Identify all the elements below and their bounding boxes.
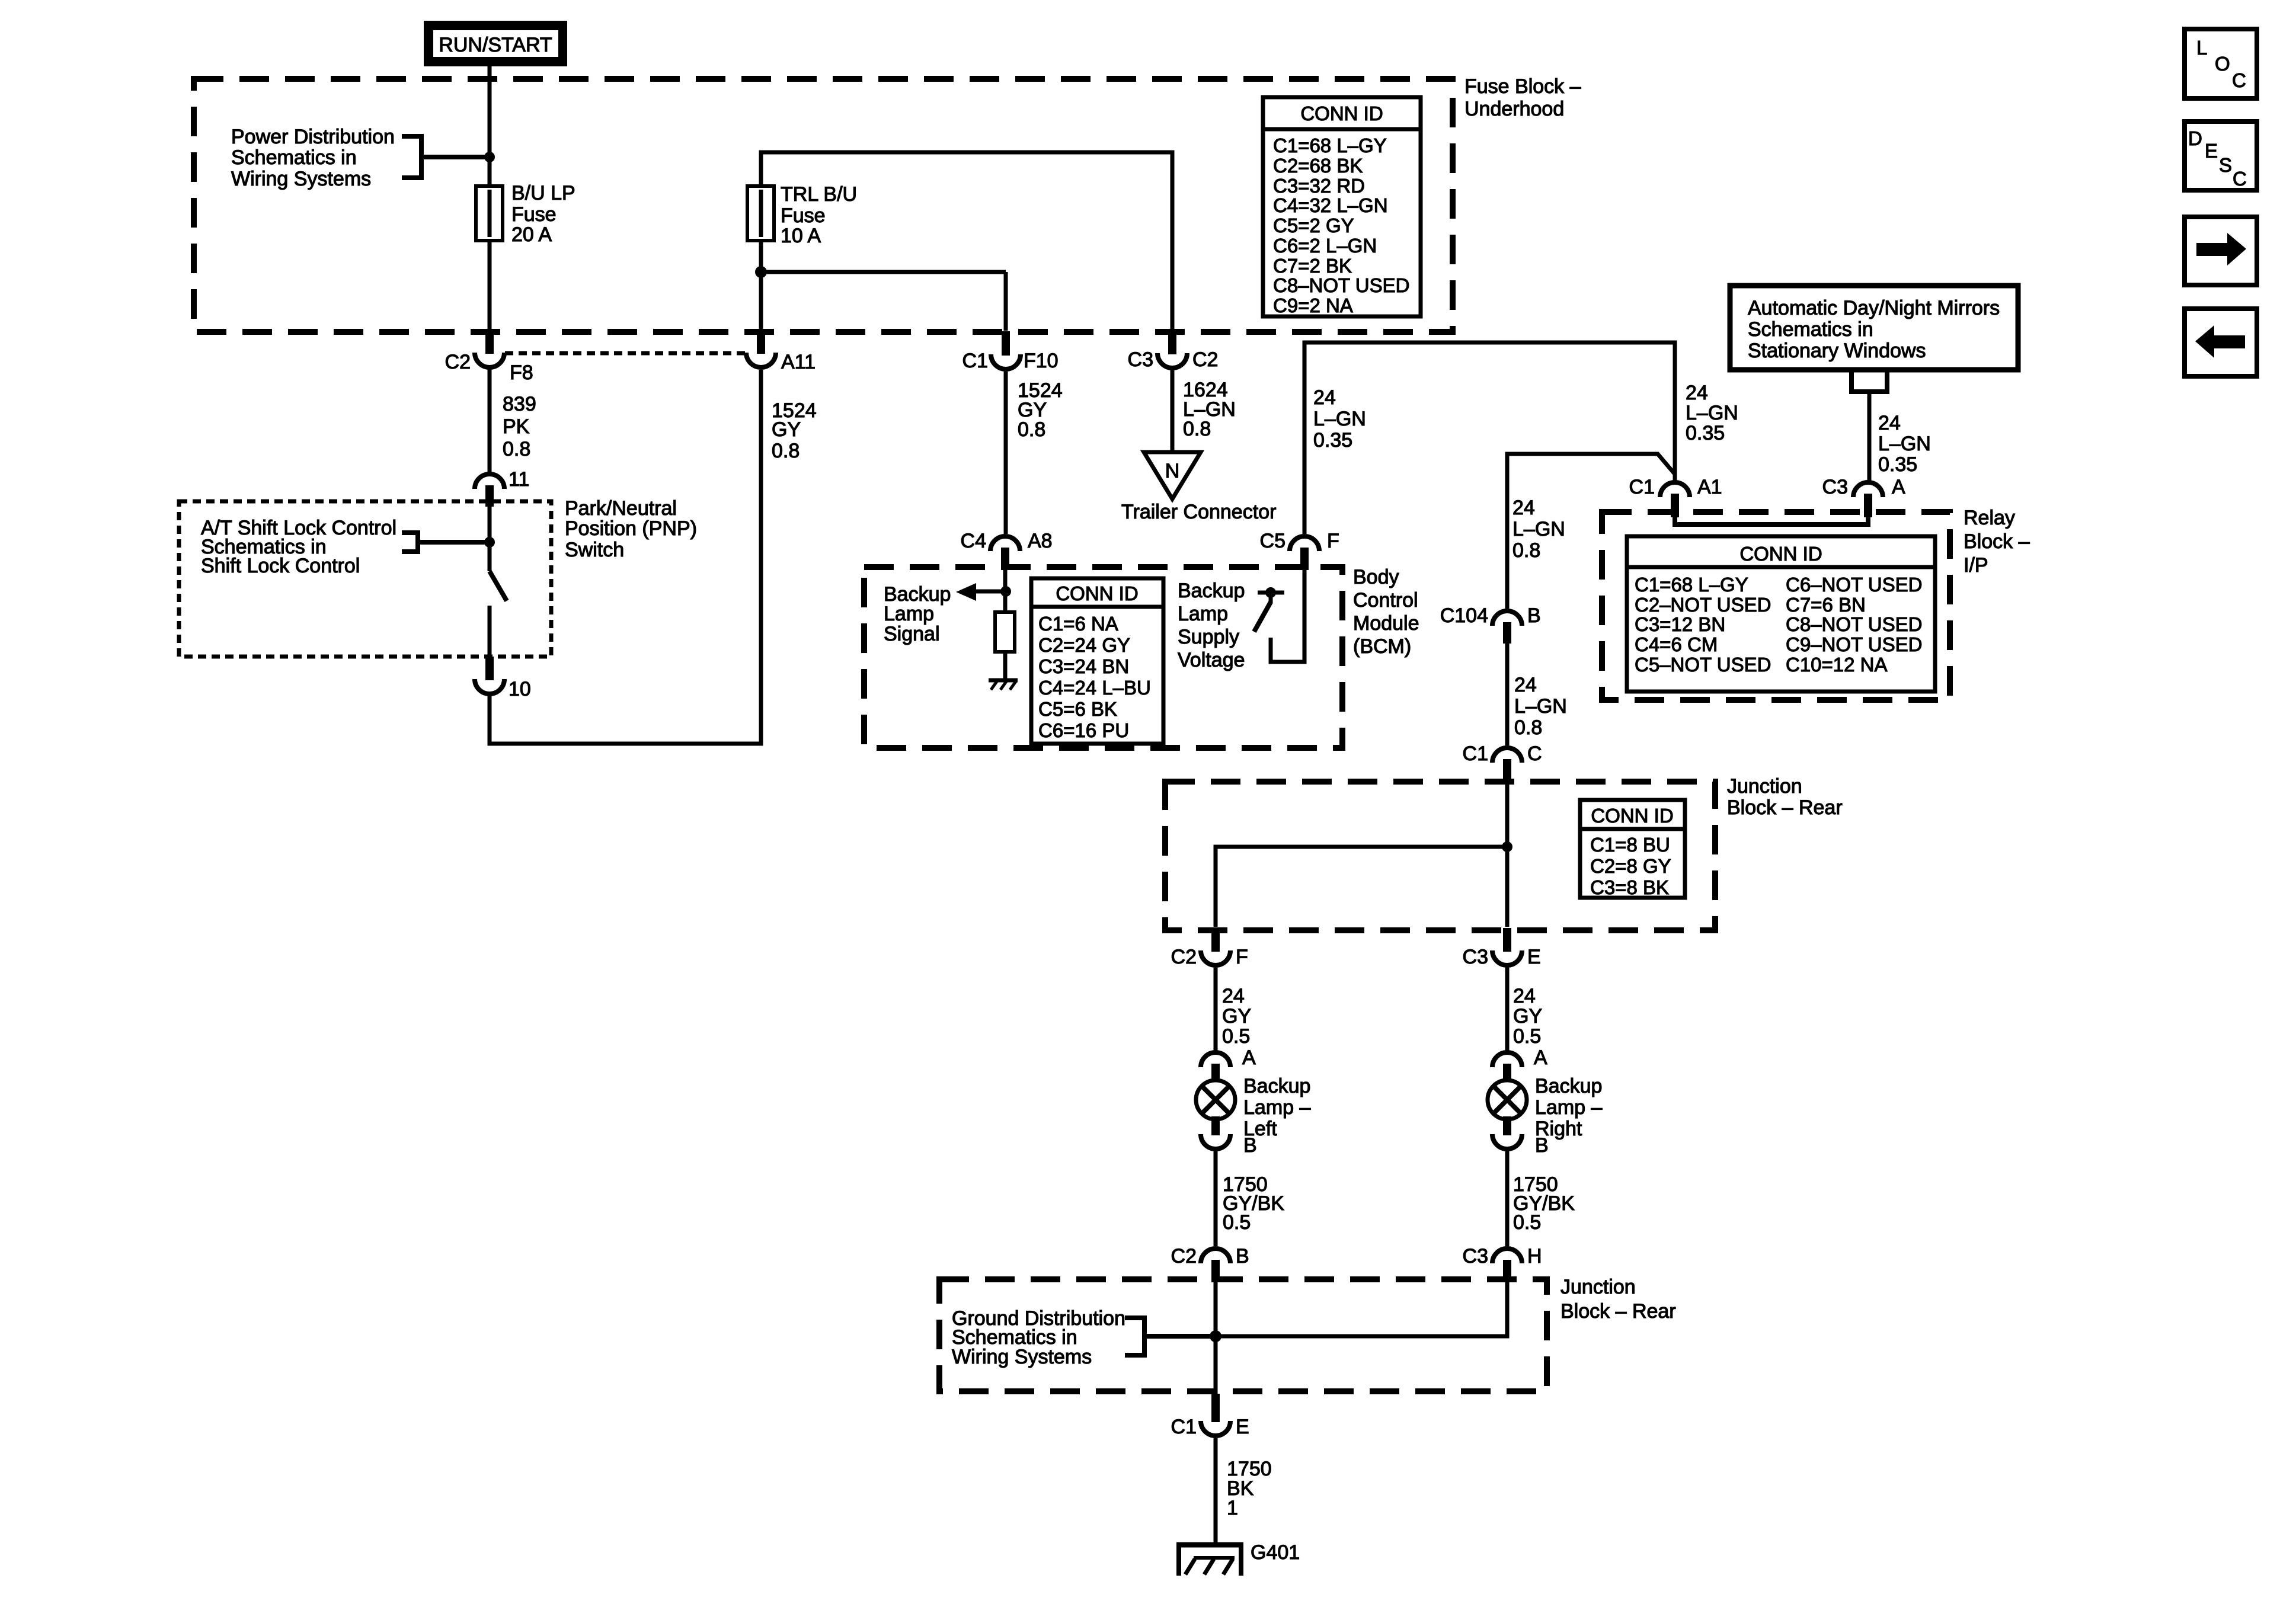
- svg-text:0.5: 0.5: [1513, 1025, 1541, 1048]
- svg-text:B: B: [1535, 1134, 1549, 1157]
- junction: A/T shift lock tap: [484, 537, 495, 548]
- svg-text:Lamp –: Lamp –: [1535, 1096, 1602, 1119]
- wire: pin 11 into switch: [488, 505, 492, 571]
- svg-text:C1: C1: [1463, 742, 1488, 765]
- svg-text:24: 24: [1313, 386, 1336, 409]
- svg-text:Supply: Supply: [1178, 626, 1239, 648]
- wire: relay block bus A1 to A: [1675, 517, 1868, 524]
- svg-text:0.5: 0.5: [1223, 1211, 1251, 1234]
- svg-text:Relay: Relay: [1964, 507, 2015, 529]
- svg-text:O: O: [2215, 53, 2230, 75]
- svg-text:L: L: [2196, 37, 2207, 59]
- svg-text:Backup: Backup: [1178, 580, 1245, 602]
- svg-text:Shift Lock Control: Shift Lock Control: [201, 555, 360, 577]
- svg-text:C10=12 NA: C10=12 NA: [1786, 654, 1888, 676]
- svg-text:L–GN: L–GN: [1878, 433, 1931, 455]
- svg-text:C104: C104: [1440, 604, 1488, 627]
- svg-text:Position (PNP): Position (PNP): [565, 517, 697, 540]
- svg-text:24: 24: [1222, 985, 1245, 1007]
- svg-text:24: 24: [1686, 382, 1708, 404]
- svg-text:CONN ID: CONN ID: [1300, 103, 1383, 124]
- svg-text:C1=68 L–GY: C1=68 L–GY: [1273, 135, 1387, 156]
- svg-text:C8–NOT USED: C8–NOT USED: [1786, 613, 1922, 635]
- svg-text:Body: Body: [1353, 566, 1399, 588]
- svg-text:C6=16 PU: C6=16 PU: [1038, 719, 1129, 741]
- junction: backup lamp signal node: [1000, 586, 1011, 597]
- svg-text:I/P: I/P: [1964, 554, 1988, 577]
- svg-text:RUN/START: RUN/START: [439, 34, 552, 56]
- bracket: power distribution reference: [402, 136, 421, 178]
- svg-text:C3=24 BN: C3=24 BN: [1038, 655, 1129, 677]
- svg-text:CONN ID: CONN ID: [1056, 582, 1138, 604]
- connector pin A (backup lamp left): [1201, 1046, 1256, 1081]
- svg-text:A8: A8: [1028, 530, 1053, 552]
- svg-text:C4=32 L–GN: C4=32 L–GN: [1273, 194, 1388, 216]
- wire: right lamp B to C3/H: [1505, 1151, 1510, 1246]
- svg-text:A1: A1: [1697, 476, 1722, 498]
- svg-text:C2: C2: [1171, 1245, 1197, 1267]
- svg-text:C2–NOT USED: C2–NOT USED: [1635, 594, 1771, 616]
- trailer connector N triangle: [1144, 452, 1201, 499]
- wire: mirrors to C3/A: [1868, 392, 1872, 481]
- icon: DESC box: [2185, 121, 2257, 190]
- wire: bracket stem to splice: [1144, 1334, 1210, 1339]
- wire: C2 to trailer connector: [1171, 370, 1175, 452]
- svg-text:Block – Rear: Block – Rear: [1560, 1300, 1676, 1323]
- svg-text:F8: F8: [510, 361, 533, 384]
- svg-text:C3=8 BK: C3=8 BK: [1590, 876, 1669, 898]
- svg-text:G401: G401: [1251, 1541, 1300, 1564]
- wire: B down through junction block to C1/E: [1214, 1280, 1218, 1398]
- wire: H down and left to ground splice: [1216, 1280, 1507, 1336]
- connector C3/E (junction block to right lamp): [1463, 928, 1541, 968]
- svg-text:0.5: 0.5: [1222, 1025, 1250, 1048]
- node: RUN/START ignition feed box: [428, 25, 564, 63]
- svg-text:N: N: [1165, 460, 1180, 482]
- connector pin B (backup lamp right): [1492, 1116, 1549, 1157]
- svg-text:Switch: Switch: [565, 539, 624, 561]
- svg-text:A11: A11: [781, 351, 816, 373]
- svg-text:Schematics in: Schematics in: [231, 146, 357, 169]
- svg-text:Block –: Block –: [1964, 530, 2030, 553]
- node: Automatic Day/Night Mirrors reference box: [1730, 286, 2018, 370]
- svg-text:F: F: [1236, 946, 1248, 968]
- junction: ground splice: [1210, 1330, 1221, 1342]
- switch: PNP blade (open): [490, 571, 507, 601]
- icon: forward arrow box: [2185, 217, 2257, 285]
- svg-text:Lamp: Lamp: [1178, 603, 1228, 625]
- wire: TRL fuse output to F10 drop: [761, 270, 1006, 274]
- wire: to left lamp pin A: [1214, 968, 1218, 1051]
- svg-text:GY: GY: [1513, 1005, 1542, 1028]
- wire: switch lower contact to pin 10: [488, 606, 492, 657]
- Junction Block Rear lower dashed box: [939, 1279, 1547, 1391]
- svg-text:D: D: [2188, 127, 2202, 149]
- svg-text:Backup: Backup: [1535, 1075, 1602, 1097]
- Park/Neutral Position switch dashed box: [179, 501, 551, 657]
- connector pin 11 (PNP switch): [475, 468, 529, 507]
- svg-text:1: 1: [1227, 1497, 1238, 1519]
- svg-text:L–GN: L–GN: [1686, 402, 1738, 424]
- svg-text:C1: C1: [1629, 476, 1655, 498]
- Body Control Module dashed box: [864, 567, 1342, 748]
- wire: to right lamp pin A: [1505, 968, 1510, 1051]
- connector C3/H (ground junction block): [1463, 1245, 1542, 1282]
- connector C2/F8 (fuse block output): [445, 329, 533, 384]
- svg-text:C2: C2: [1192, 348, 1218, 371]
- connector C1/C (junction block rear): [1463, 742, 1542, 782]
- ground G401: [1176, 1543, 1243, 1576]
- svg-text:0.35: 0.35: [1878, 453, 1917, 476]
- svg-text:(BCM): (BCM): [1353, 635, 1411, 658]
- svg-text:0.8: 0.8: [772, 440, 800, 462]
- svg-text:Backup: Backup: [1243, 1075, 1310, 1097]
- svg-text:0.8: 0.8: [1514, 716, 1542, 739]
- connector row dotted line C2 to A11: [505, 351, 746, 356]
- svg-text:Signal: Signal: [884, 623, 940, 645]
- svg-text:H: H: [1527, 1245, 1542, 1267]
- svg-text:0.5: 0.5: [1513, 1211, 1541, 1234]
- wire: F8 to pin 11: [488, 369, 492, 472]
- svg-text:C6=2 L–GN: C6=2 L–GN: [1273, 235, 1377, 257]
- connector C1/A1 (relay block): [1629, 476, 1722, 517]
- svg-text:Underhood: Underhood: [1464, 98, 1564, 120]
- svg-text:Module: Module: [1353, 612, 1419, 635]
- svg-text:0.8: 0.8: [1183, 418, 1211, 440]
- svg-text:0.8: 0.8: [1018, 418, 1045, 441]
- svg-text:0.8: 0.8: [1512, 539, 1540, 562]
- wire: TRL fuse loop to trailer drop: [761, 152, 1172, 331]
- connector C5/F (BCM supply): [1260, 530, 1339, 570]
- svg-text:Wiring Systems: Wiring Systems: [952, 1346, 1092, 1368]
- svg-text:Voltage: Voltage: [1178, 649, 1245, 671]
- resistor: BCM internal pull: [995, 612, 1015, 652]
- svg-text:C: C: [1527, 742, 1542, 765]
- svg-text:A: A: [1892, 476, 1905, 498]
- svg-text:C2=24 GY: C2=24 GY: [1038, 634, 1130, 656]
- svg-text:Lamp –: Lamp –: [1243, 1096, 1310, 1119]
- svg-text:Wiring Systems: Wiring Systems: [231, 168, 371, 190]
- svg-text:Lamp: Lamp: [884, 603, 934, 625]
- icon: LOC box: [2185, 29, 2257, 98]
- svg-text:C: C: [2232, 69, 2246, 91]
- svg-text:C3: C3: [1128, 348, 1153, 371]
- svg-text:C4=6 CM: C4=6 CM: [1635, 633, 1718, 655]
- svg-text:C2: C2: [445, 351, 471, 373]
- svg-text:C: C: [2233, 168, 2247, 190]
- fuse B/U LP 20 A: [476, 186, 503, 241]
- connector pin 10 (PNP switch): [475, 657, 531, 700]
- junction: BCM switch common with stub: [1258, 591, 1284, 595]
- connector C104/B (pass through): [1440, 604, 1541, 644]
- svg-text:839: 839: [503, 393, 536, 415]
- svg-text:S: S: [2219, 154, 2232, 176]
- arrow: backup lamp signal direction: [976, 590, 1006, 594]
- wire: left lamp B to C2/B: [1214, 1151, 1218, 1246]
- wire: C104 to C1/C: [1505, 642, 1510, 745]
- svg-text:C5–NOT USED: C5–NOT USED: [1635, 654, 1771, 676]
- svg-text:20 A: 20 A: [511, 223, 552, 246]
- svg-text:C7=2 BK: C7=2 BK: [1273, 255, 1352, 277]
- svg-text:C2=68 BK: C2=68 BK: [1273, 155, 1363, 177]
- wire: RUN/START down to connector C2/F8: [488, 66, 492, 331]
- svg-text:L–GN: L–GN: [1313, 408, 1366, 430]
- wire: A8 into BCM: [1003, 570, 1008, 612]
- svg-text:A: A: [1534, 1046, 1547, 1069]
- wire: E down to G401: [1214, 1438, 1218, 1543]
- connector C4/A8 (BCM backup lamp signal): [961, 530, 1053, 570]
- svg-text:TRL B/U: TRL B/U: [781, 183, 857, 206]
- svg-text:10 A: 10 A: [781, 225, 821, 247]
- svg-text:C7=6 BN: C7=6 BN: [1786, 594, 1866, 616]
- svg-text:24: 24: [1514, 674, 1537, 696]
- svg-text:L–GN: L–GN: [1512, 518, 1565, 540]
- table: BCM CONN ID: [1031, 578, 1163, 744]
- svg-text:C1=8 BU: C1=8 BU: [1590, 834, 1670, 856]
- svg-text:F: F: [1327, 530, 1339, 552]
- svg-text:C3: C3: [1463, 1245, 1488, 1267]
- junction: junction block splice: [1502, 841, 1512, 852]
- svg-text:Control: Control: [1353, 589, 1418, 612]
- Junction Block Rear upper dashed box: [1165, 782, 1715, 930]
- wire: resistor to internal ground: [1003, 652, 1008, 680]
- svg-text:A: A: [1242, 1046, 1256, 1069]
- svg-text:C8–NOT USED: C8–NOT USED: [1273, 274, 1409, 296]
- connector C2/F (junction block to left lamp): [1171, 928, 1248, 968]
- svg-text:C1=68 L–GY: C1=68 L–GY: [1635, 574, 1748, 596]
- svg-text:Park/Neutral: Park/Neutral: [565, 497, 677, 520]
- svg-text:11: 11: [509, 468, 529, 491]
- svg-text:C4=24 L–BU: C4=24 L–BU: [1038, 677, 1151, 699]
- svg-text:E: E: [1527, 946, 1541, 968]
- bracket: mirrors box staple: [1851, 370, 1887, 392]
- svg-text:F10: F10: [1024, 350, 1059, 372]
- wire: pin 10 down, right and up to A11: [490, 370, 761, 744]
- wire: bracket stem: [418, 540, 485, 545]
- ground: BCM internal chassis ground: [989, 680, 1018, 690]
- svg-text:Fuse: Fuse: [511, 203, 557, 226]
- svg-text:0.8: 0.8: [503, 438, 530, 460]
- svg-text:24: 24: [1878, 412, 1901, 434]
- svg-text:C1: C1: [1171, 1416, 1197, 1438]
- svg-text:C2=8 GY: C2=8 GY: [1590, 855, 1671, 877]
- lamp: Backup Lamp - Left: [1196, 1080, 1235, 1119]
- svg-text:Automatic Day/Night Mirrors: Automatic Day/Night Mirrors: [1748, 297, 2000, 319]
- connector C2/B (ground junction block): [1171, 1245, 1249, 1282]
- connector C3/C2 (fuse block to trailer): [1128, 330, 1219, 371]
- svg-text:Fuse: Fuse: [781, 204, 826, 227]
- connector C1/F10 (fuse block): [962, 331, 1059, 372]
- svg-text:C5: C5: [1260, 530, 1285, 552]
- svg-text:Schematics in: Schematics in: [1748, 318, 1873, 341]
- svg-text:Block – Rear: Block – Rear: [1727, 796, 1843, 819]
- svg-text:Power Distribution: Power Distribution: [231, 126, 395, 148]
- junction: power distribution tap: [484, 152, 495, 162]
- svg-text:CONN ID: CONN ID: [1591, 805, 1673, 827]
- svg-text:0.35: 0.35: [1686, 422, 1725, 444]
- table: relay block CONN ID: [1627, 536, 1935, 692]
- svg-text:Trailer Connector: Trailer Connector: [1121, 501, 1276, 523]
- wire: C104 riser to relay C1/A1: [1507, 454, 1674, 609]
- svg-text:Fuse Block –: Fuse Block –: [1464, 75, 1581, 98]
- svg-text:10: 10: [509, 678, 531, 700]
- wire: C down through junction block: [1505, 780, 1510, 927]
- svg-text:C5=2 GY: C5=2 GY: [1273, 215, 1354, 236]
- lamp: Backup Lamp - Right: [1488, 1080, 1527, 1119]
- svg-text:B/U LP: B/U LP: [511, 182, 575, 204]
- wire: F into BCM to switch hook: [1271, 570, 1304, 662]
- icon: back arrow box: [2185, 309, 2257, 376]
- svg-text:0.35: 0.35: [1313, 429, 1352, 452]
- svg-text:GY: GY: [772, 418, 801, 441]
- svg-text:C3=12 BN: C3=12 BN: [1635, 613, 1725, 635]
- fuse TRL B/U 10 A: [747, 186, 774, 241]
- connector pin A (backup lamp right): [1492, 1046, 1547, 1081]
- svg-text:PK: PK: [503, 415, 530, 438]
- switch: BCM output driver blade (open): [1254, 602, 1271, 632]
- wire: F10 down to C4/A8: [1004, 372, 1008, 534]
- svg-text:24: 24: [1513, 985, 1536, 1007]
- bracket: ground distribution reference: [1125, 1318, 1144, 1355]
- wire: splice left to C2/F drop: [1216, 847, 1507, 927]
- svg-text:C1=6 NA: C1=6 NA: [1038, 613, 1118, 635]
- svg-text:24: 24: [1512, 497, 1535, 519]
- svg-text:GY: GY: [1222, 1005, 1251, 1028]
- svg-text:C3: C3: [1822, 476, 1848, 498]
- svg-text:Junction: Junction: [1727, 775, 1802, 798]
- Relay Block I/P dashed box: [1602, 512, 1950, 700]
- svg-text:C5=6 BK: C5=6 BK: [1038, 698, 1117, 720]
- Fuse Block - Underhood dashed box: [194, 79, 1453, 332]
- svg-text:B: B: [1236, 1245, 1249, 1267]
- svg-text:C3: C3: [1463, 946, 1488, 968]
- connector C3/A (relay block): [1822, 476, 1905, 517]
- svg-text:E: E: [2205, 140, 2218, 162]
- svg-text:C4: C4: [961, 530, 986, 552]
- svg-text:Stationary Windows: Stationary Windows: [1748, 340, 1926, 362]
- connector pin B (backup lamp left): [1201, 1116, 1257, 1157]
- svg-text:CONN ID: CONN ID: [1739, 543, 1822, 565]
- connector C1/E (junction block to G401): [1171, 1394, 1249, 1438]
- svg-text:C9=2 NA: C9=2 NA: [1273, 295, 1353, 316]
- svg-text:C6–NOT USED: C6–NOT USED: [1786, 574, 1922, 596]
- svg-text:B: B: [1243, 1134, 1257, 1157]
- svg-text:C1: C1: [962, 350, 988, 372]
- bracket: A/T shift lock reference: [402, 533, 418, 552]
- svg-text:B: B: [1527, 604, 1541, 627]
- connector A11 (fuse block): [746, 329, 816, 373]
- wire: bracket stem to tap: [421, 155, 485, 159]
- svg-text:E: E: [1236, 1416, 1249, 1438]
- junction: TRL fuse output node: [755, 266, 767, 278]
- svg-text:C9–NOT USED: C9–NOT USED: [1786, 633, 1922, 655]
- svg-text:Junction: Junction: [1560, 1276, 1636, 1298]
- table: junction block rear CONN ID: [1580, 800, 1685, 898]
- svg-text:C3=32 RD: C3=32 RD: [1273, 175, 1365, 197]
- table: fuse block CONN ID: [1263, 97, 1421, 316]
- svg-text:C2: C2: [1171, 946, 1197, 968]
- wire: relay feed horizontal to C5/F riser: [1304, 343, 1675, 534]
- svg-text:L–GN: L–GN: [1514, 695, 1567, 718]
